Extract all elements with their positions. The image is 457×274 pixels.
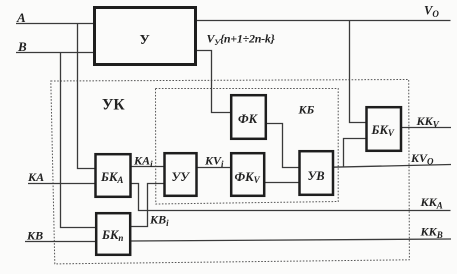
wire A bbox=[16, 23, 94, 25]
wire KKB from BKp to right edge bbox=[130, 239, 451, 241]
wire KV input bbox=[25, 241, 97, 243]
svg-text:КА: КА bbox=[27, 170, 44, 184]
wire VU tap from U to FK bbox=[196, 51, 232, 113]
wire FKV out to UV bbox=[264, 182, 301, 184]
block FK bbox=[231, 95, 266, 139]
svg-text:KVi: KVi bbox=[204, 154, 224, 170]
wire VO branch down to BKV bbox=[350, 20, 368, 123]
block BKp bbox=[96, 213, 130, 255]
wire VO output bbox=[196, 20, 451, 22]
block U bbox=[95, 8, 196, 65]
wire KVi UU to FKV bbox=[196, 167, 232, 169]
wire KA input bbox=[28, 183, 96, 185]
svg-text:УУ: УУ bbox=[172, 170, 191, 184]
wire KKV from BKV to right edge bbox=[400, 127, 452, 129]
block BKA bbox=[96, 154, 131, 197]
block UU bbox=[165, 153, 197, 196]
block BKV bbox=[367, 107, 402, 151]
wire KVO from UV to right edge bbox=[332, 165, 451, 168]
wire B bbox=[16, 52, 94, 54]
svg-text:ФК: ФК bbox=[238, 112, 259, 126]
dashed block KB bbox=[156, 89, 339, 205]
wire KKA from BKA to right edge bbox=[130, 184, 451, 211]
wire KAi BKA to UU bbox=[130, 166, 165, 168]
wire B drop to BKp bbox=[61, 52, 98, 228]
svg-text:КВ: КВ bbox=[26, 229, 43, 243]
svg-text:КАi: КАi bbox=[133, 154, 153, 170]
wire A drop to BKA bbox=[78, 23, 97, 169]
svg-text:УК: УК bbox=[102, 97, 125, 114]
block FKV bbox=[231, 153, 264, 196]
wire KVO branch up to BKV bbox=[344, 139, 368, 167]
svg-text:КВi: КВi bbox=[149, 213, 169, 229]
svg-text:УВ: УВ bbox=[308, 169, 325, 183]
svg-text:КБ: КБ bbox=[298, 103, 315, 117]
svg-text:У: У bbox=[140, 33, 150, 48]
block UV bbox=[300, 151, 334, 195]
wire FK out to UV bbox=[264, 124, 300, 168]
svg-text:А: А bbox=[16, 10, 26, 25]
wire KVi from BKp up to UU bbox=[130, 184, 165, 227]
dashed block UK bbox=[51, 80, 410, 264]
svg-text:В: В bbox=[17, 39, 27, 54]
